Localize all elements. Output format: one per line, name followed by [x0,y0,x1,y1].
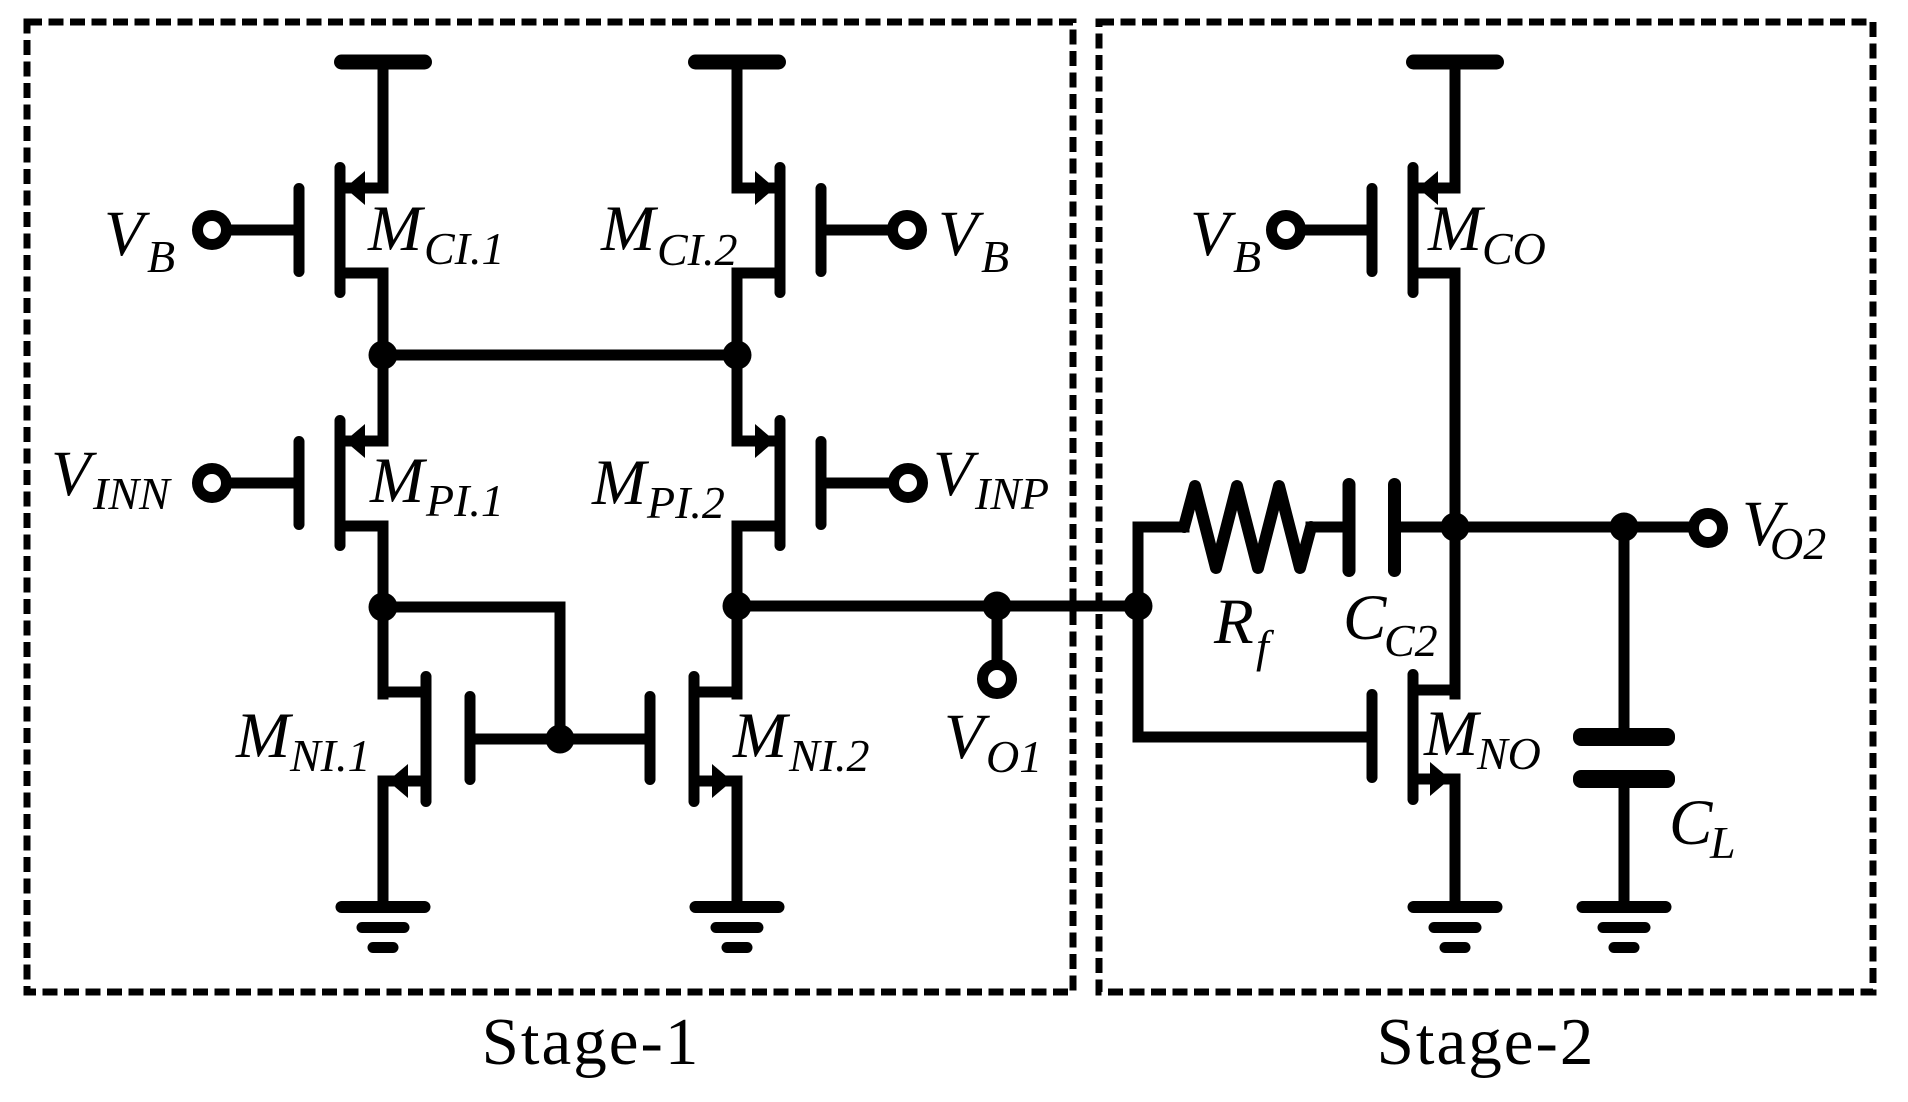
transistor M_NO (NMOS) [1367,669,1456,805]
svg-text:NI.2: NI.2 [788,730,870,781]
VDD rail (left) [334,55,432,70]
wire C_L bottom plate to ground [1619,786,1630,905]
junction dot on mirror gate wire [546,725,575,754]
terminal V_O1 [983,665,1012,694]
svg-text:Stage-2: Stage-2 [1377,1005,1596,1079]
ground (under M_NI.2) [690,901,785,913]
wire M_CO source to output node [1450,273,1461,527]
transistor M_NI.1 (NMOS) [383,671,476,807]
wire riser top corner to R_f [1138,522,1184,533]
wire node B to M_PI.2 drain [732,355,743,441]
terminal V_B (left) [198,216,227,245]
svg-text:NO: NO [1476,728,1541,779]
wire V_INN terminal to M_PI.1 gate [228,478,294,489]
resistor R_f [1184,486,1311,568]
wire node A to node B (cascode link) [383,350,737,361]
svg-text:M: M [732,700,791,772]
wire riser bottom corner to M_NO gate [1138,732,1366,743]
node F junction dot (V_O1 entry) [1124,592,1153,621]
wire VDD to M_CI.2 drain [732,62,743,188]
wire C_L tap to top plate [1619,527,1630,733]
wire M_PI.2 gate to V_INP terminal [826,478,890,489]
transistor M_CI.2 (PMOS) [737,162,827,298]
terminal V_INP [894,469,923,498]
svg-text:B: B [1233,231,1261,282]
svg-text:NI.1: NI.1 [289,730,371,781]
transistor M_PI.1 (PMOS) [294,415,384,551]
svg-text:INN: INN [92,468,172,519]
svg-text:CI.1: CI.1 [424,223,505,274]
node C junction dot [369,593,398,622]
wire M_PI.2 source to node D [732,526,743,606]
svg-text:INP: INP [974,468,1049,519]
svg-text:Stage-1: Stage-1 [482,1005,701,1079]
svg-text:M: M [600,193,659,265]
wire node C to M_NI.1 drain [378,607,389,694]
junction dot at V_O1 tap [983,592,1012,621]
svg-text:M: M [1423,698,1482,770]
node B junction dot [723,341,752,370]
svg-text:V: V [104,198,150,270]
svg-text:O2: O2 [1770,518,1826,569]
wire M_CI.2 source to node B [732,273,743,355]
wire C_C2 to output node [1401,522,1449,533]
svg-text:V: V [933,438,979,510]
svg-text:PI.2: PI.2 [646,477,725,528]
wire R_f to C_C2 [1311,522,1338,533]
terminal V_B (right) [893,216,922,245]
terminal V_INN [198,469,227,498]
svg-text:M: M [369,445,428,517]
svg-text:O1: O1 [986,731,1042,782]
junction dot at C_L tap [1610,513,1639,542]
svg-text:V: V [938,198,984,270]
svg-text:M: M [591,447,650,519]
ground (under C_L) [1577,901,1672,913]
ground (under M_NO) [1408,901,1503,913]
wire M_NI.1 source to ground [378,781,389,905]
svg-text:CI.2: CI.2 [657,224,738,275]
svg-text:CO: CO [1482,223,1546,274]
node D junction dot [723,592,752,621]
svg-text:R: R [1213,586,1254,658]
wire node A to M_PI.1 drain [378,355,389,441]
svg-text:V: V [1190,198,1236,270]
VDD rail (Stage-2) [1406,55,1504,70]
wire M_CI.2 gate to V_B terminal [826,225,890,236]
svg-text:B: B [981,231,1009,282]
wire node D to M_NI.2 drain [732,606,743,694]
wire M_NI.2 source to ground [732,781,743,905]
transistor M_PI.2 (PMOS) [737,415,827,551]
wire mirror gate link (vertical) [555,607,566,739]
Stage-2 dashed box [1099,22,1873,992]
wire node C to mirror gate (horizontal) [383,602,560,613]
wire VDD to M_CI.1 drain [378,62,389,188]
wire node D to Stage-2 (V_O1 net) [737,601,1138,612]
capacitor C_C2 [1343,478,1402,577]
terminal V_B (Stage-2) [1272,216,1301,245]
wire output node to V_O2 [1455,522,1688,533]
wire gate M_NI.1 to gate M_NI.2 [470,734,650,745]
capacitor C_L [1573,728,1675,788]
VDD rail (right) [688,55,786,70]
transistor M_NI.2 (NMOS) [645,671,738,807]
wire output node to M_NO drain [1450,527,1461,694]
svg-text:M: M [235,700,294,772]
node A junction dot [369,341,398,370]
svg-text:PI.1: PI.1 [425,475,504,526]
transistor M_CI.1 (PMOS) [294,162,384,298]
wire V_O1 stub [992,606,1003,661]
terminal V_O2 [1694,514,1723,543]
svg-text:C: C [1343,582,1387,654]
wire M_CI.1 source to node A [378,273,389,355]
wire V_O1 net vertical riser [1133,527,1144,737]
wire M_NO source to ground [1450,779,1461,905]
svg-text:M: M [367,193,426,265]
node E junction dot (compensation tap) [1441,513,1470,542]
wire VDD to M_CO drain [1450,62,1461,188]
ground (under M_NI.1) [336,901,431,913]
svg-text:M: M [1427,193,1486,265]
svg-text:L: L [1709,817,1736,868]
svg-text:B: B [147,231,175,282]
svg-text:V: V [944,701,990,773]
wire M_PI.1 source to node C [378,526,389,607]
svg-text:C2: C2 [1384,615,1438,666]
svg-text:V: V [51,438,97,510]
transistor M_CO (PMOS) [1367,162,1456,298]
wire V_B terminal to M_CO gate [1302,225,1367,236]
wire V_B terminal to M_CI.1 gate [228,225,294,236]
Stage-1 dashed box [27,22,1073,992]
svg-text:C: C [1669,787,1713,859]
